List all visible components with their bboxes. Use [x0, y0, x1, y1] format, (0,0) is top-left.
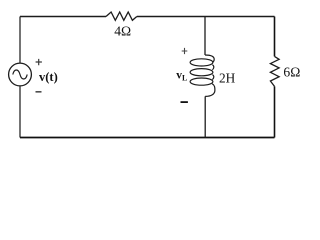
plus sign at source — [36, 59, 42, 65]
minus sign at inductor — [181, 101, 188, 103]
bottom wire — [20, 137, 275, 139]
wire right branch lower — [274, 86, 276, 137]
wire left branch upper — [19, 17, 21, 64]
resistor 4ohm zigzag — [106, 12, 137, 20]
resistor 6ohm zigzag — [270, 56, 279, 86]
inductor 2H coil — [190, 55, 215, 96]
wire middle branch upper — [204, 17, 206, 56]
svg-text:2H: 2H — [219, 70, 236, 85]
svg-text:4Ω: 4Ω — [114, 23, 131, 38]
plus sign at inductor — [182, 48, 188, 54]
wire right branch upper — [274, 17, 276, 57]
wire middle branch lower — [204, 96, 206, 137]
svg-text:6Ω: 6Ω — [283, 65, 300, 80]
wire left branch lower — [19, 86, 21, 138]
AC source sine wave — [13, 70, 27, 79]
wire resistor R1 to top-right corner — [137, 16, 275, 18]
svg-text:vL: vL — [176, 70, 187, 83]
svg-text:v(t): v(t) — [39, 70, 58, 84]
wire top-left to resistor R1 — [20, 16, 106, 18]
minus sign at source — [36, 91, 42, 92]
AC source v(t) circle — [9, 63, 32, 86]
